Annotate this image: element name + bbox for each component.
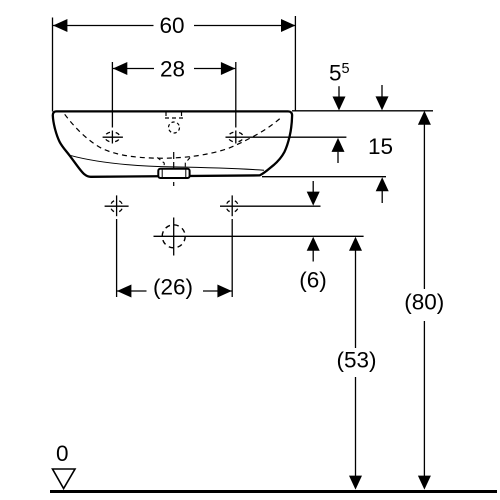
- drain dashed circle: [162, 225, 185, 248]
- arrowhead (6) up: [307, 237, 320, 251]
- arrowhead 28 left: [113, 62, 127, 75]
- (6) down arrow tail: [312, 181, 314, 193]
- trap inner line left: [161, 169, 163, 177]
- overflow dashed line: [165, 117, 183, 119]
- svg-text:(6): (6): [299, 268, 327, 293]
- extension line drain level: [154, 235, 364, 237]
- dimension line 60 right part: [194, 25, 295, 27]
- extension line left of 60: [52, 18, 54, 112]
- extension line mounting hole level: [220, 205, 321, 207]
- mounting hole left cross horizontal: [105, 205, 129, 207]
- mounting hole left cross vertical: [116, 195, 118, 216]
- arrowhead 15 up: [332, 138, 345, 152]
- extension line right of 60: [294, 16, 296, 111]
- arrowhead (26) right: [217, 285, 231, 298]
- svg-text:0: 0: [56, 441, 69, 466]
- svg-text:(26): (26): [153, 275, 193, 300]
- washbasin outline: [53, 111, 292, 176]
- arrowhead (6) down: [307, 192, 320, 206]
- overflow tick right: [181, 112, 183, 117]
- arrowhead 60 left: [53, 19, 67, 32]
- arrowhead 28 right: [221, 62, 235, 75]
- tap hole left cross horizontal: [103, 136, 123, 138]
- 5.5 arrow tail 1: [338, 86, 340, 98]
- extension line tap hole level: [226, 136, 347, 138]
- tap hole left dashed ellipse: [105, 132, 120, 142]
- extension line right of 28: [235, 62, 237, 128]
- 15 up arrow tail: [337, 152, 339, 163]
- svg-text:55: 55: [329, 61, 350, 86]
- svg-text:(80): (80): [404, 290, 444, 315]
- (80) dimension line upper part: [423, 123, 425, 289]
- (80) dimension line lower part: [423, 321, 425, 477]
- drain funnel dashed left: [157, 158, 164, 169]
- extension line left of 28: [111, 62, 113, 128]
- svg-text:15: 15: [368, 134, 393, 159]
- tap hole right dashed ellipse: [228, 132, 243, 142]
- overflow dashed circle: [169, 122, 180, 133]
- arrowhead (80) top up: [418, 111, 431, 125]
- washbasin apron thin line: [70, 155, 264, 170]
- drain cross vertical: [173, 218, 175, 256]
- datum triangle: [53, 469, 76, 489]
- washbasin inner dashed curve: [65, 114, 282, 158]
- dimension line 28 left part: [113, 68, 154, 70]
- dimension line 28 right part: [194, 68, 235, 70]
- arrowhead 15 bottom up: [376, 177, 389, 191]
- arrowhead 5.5 down 1: [333, 97, 346, 111]
- dimension line (26) right part: [203, 290, 232, 292]
- dimension line (26) left part: [117, 290, 147, 292]
- mounting hole right cross vertical: [231, 195, 233, 216]
- svg-text:28: 28: [160, 57, 185, 82]
- svg-text:60: 60: [159, 13, 184, 38]
- extension line top of basin to (80): [292, 110, 433, 112]
- ground line: [50, 490, 497, 493]
- trap inner line right: [185, 169, 187, 177]
- drain center line: [173, 152, 175, 186]
- overflow tick left: [165, 112, 167, 117]
- (6) up arrow tail: [312, 250, 314, 262]
- arrowhead (53) top up: [349, 237, 362, 251]
- arrowhead (26) left: [117, 285, 131, 298]
- arrowhead (53) bottom down: [349, 476, 362, 490]
- 5.5 arrow tail 2: [381, 85, 383, 97]
- (53) dimension line lower part: [355, 377, 357, 477]
- arrowhead (80) bottom down: [418, 476, 431, 490]
- 15 bottom up arrow tail: [381, 191, 383, 203]
- drain funnel dashed right: [185, 158, 190, 169]
- mounting hole left dashed circle: [111, 200, 123, 212]
- extension line basin bottom level: [262, 176, 386, 178]
- arrowhead 60 right: [281, 19, 295, 32]
- svg-text:(53): (53): [336, 348, 376, 373]
- (53) dimension line upper part: [355, 249, 357, 348]
- extension line below right mounting hole: [231, 219, 233, 297]
- arrowhead 5.5 down 2: [376, 96, 389, 110]
- dimension line 60 left part: [53, 25, 154, 27]
- trap rectangle: [158, 169, 189, 178]
- mounting hole right dashed circle: [226, 200, 238, 212]
- extension line below left mounting hole: [116, 219, 118, 297]
